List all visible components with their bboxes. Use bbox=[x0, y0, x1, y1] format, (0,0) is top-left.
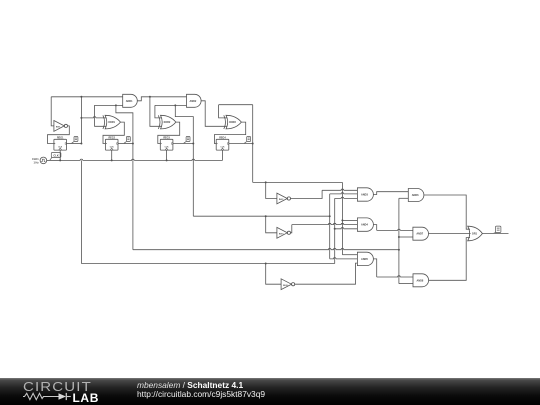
and AND7 bbox=[413, 227, 429, 240]
wire REG2 Q out bbox=[118, 143, 133, 145]
wire AND6 in2 line bbox=[399, 197, 408, 199]
wire Q1 jog to AND1/XOR1 net bbox=[116, 105, 133, 143]
wire Q1 vertical lower bbox=[132, 144, 134, 250]
wire AND3 out to AND6 in1 bbox=[373, 192, 408, 195]
clock flag CLK bbox=[50, 153, 61, 161]
junction carry1 bbox=[149, 96, 151, 98]
wire AND5 in2 line bbox=[330, 258, 358, 259]
inverter INV1 bbox=[54, 121, 68, 132]
wire Q2 horizontal to bus bbox=[193, 215, 329, 217]
wire REG1 Q to Q0 vertical bbox=[67, 143, 82, 145]
wire Q3 line top bbox=[219, 104, 253, 106]
wire REG4 Q out bbox=[229, 143, 253, 145]
wire AND3 in3 line bbox=[335, 197, 358, 198]
junction Q3 invA tap bbox=[265, 181, 267, 183]
wire invA input drop bbox=[266, 182, 277, 198]
wire Q0 horizontal bbox=[81, 263, 334, 265]
wire INV1 output wrap to REG1 D bbox=[48, 126, 70, 144]
junction Q2 bus bbox=[329, 215, 331, 217]
wire Q3 to AND5 in1 bbox=[342, 254, 357, 256]
wire AND5 out to AND8 in1 bbox=[373, 259, 413, 277]
wire AND4 in1 line bbox=[342, 219, 357, 221]
wire bus Q2 vertical bbox=[329, 194, 331, 259]
junction Q1 fanout bbox=[398, 249, 400, 251]
flip-flop REG2 bbox=[105, 136, 118, 150]
and AND2 bbox=[187, 94, 202, 107]
wire XOR1 out wrap to REG2 D bbox=[103, 122, 124, 143]
and AND5 bbox=[357, 252, 373, 265]
wire Q1 horizontal to right gates bbox=[133, 248, 399, 249]
junction Q0 XOR1 tap bbox=[80, 117, 82, 119]
wire carry1 drop to XOR2 in2 bbox=[150, 97, 162, 127]
wire XOR3 bracket top input bbox=[219, 105, 228, 118]
junction REG4 Q bbox=[252, 143, 254, 145]
junction REG1 Q bbox=[80, 143, 82, 145]
junction clock REG2 bbox=[111, 159, 113, 161]
wire AND4 in3 line bbox=[335, 228, 358, 229]
wire invA out riser to AND3 in1 bbox=[291, 190, 323, 198]
wire REG1 clk pin bbox=[59, 150, 61, 160]
junction clock REG3 bbox=[166, 159, 168, 161]
flag Q1 bbox=[124, 137, 130, 144]
flip-flop REG4 bbox=[216, 136, 229, 150]
and AND6 bbox=[408, 189, 424, 202]
inverter INV2 (not Q3) bbox=[277, 193, 291, 204]
junction clock REG1 bbox=[59, 159, 61, 161]
wire clock bus REG1 to REG4 bbox=[60, 159, 222, 160]
footer bar bbox=[0, 378, 540, 405]
junction Q2 invB tap bbox=[265, 215, 267, 217]
wire Q2 line to AND2 in2 bbox=[155, 104, 187, 106]
flag Q0 bbox=[72, 137, 78, 144]
wire clock source to REG1 clk bbox=[47, 159, 61, 161]
junction REG3 Q bbox=[192, 143, 194, 145]
wire Q3 horizontal to bus bbox=[253, 181, 343, 183]
junction Q0 invC tap bbox=[265, 263, 267, 265]
wire invC out to AND5 in3 bbox=[295, 263, 358, 284]
junction Q1 AND7 tap bbox=[398, 236, 400, 238]
junction AND1 in2 tap bbox=[115, 104, 117, 106]
and AND1 bbox=[123, 94, 138, 107]
wire bus Q3 vertical bbox=[341, 182, 343, 254]
wire AND6 out to OR1 in1 bbox=[424, 195, 470, 229]
wire AND2 out to XOR3 in2 bbox=[201, 101, 227, 127]
flag Q3 bbox=[244, 137, 250, 144]
flag OUT bbox=[494, 226, 501, 233]
wire Q0 vertical lower bbox=[80, 160, 82, 263]
xor XOR3 bbox=[224, 115, 242, 129]
and AND3 bbox=[357, 188, 373, 201]
junction Q0 AND4 tap bbox=[334, 228, 336, 230]
flag Q2 bbox=[184, 137, 190, 144]
junction REG2 Q bbox=[132, 143, 134, 145]
or OR1 bbox=[468, 226, 483, 241]
wire XOR1 bracket (Q1 to inputs) bbox=[95, 105, 123, 126]
wire REG2 clk pin bbox=[111, 150, 113, 160]
wire Q2 vertical lower bbox=[192, 144, 194, 217]
wire AND4 in2 line bbox=[292, 223, 358, 224]
wire INV1 input from Q0 top wire bbox=[51, 97, 54, 126]
wire AND7 out to OR1 in2 bbox=[429, 232, 471, 234]
schematic url bbox=[137, 389, 265, 399]
wire Q3 vertical bbox=[252, 105, 254, 183]
wire AND8 in2 line bbox=[399, 283, 413, 285]
wire bus Q0 vertical bbox=[334, 198, 336, 263]
CircuitLab logo text bbox=[23, 380, 92, 394]
wire AND4 out to AND7 in1 bbox=[373, 225, 413, 231]
and AND4 bbox=[357, 218, 373, 231]
flip-flop REG1 bbox=[54, 136, 67, 150]
wire XOR2 bracket top input bbox=[155, 105, 162, 118]
wire Q0 vertical bbox=[81, 97, 106, 144]
wire XOR3 out wrap to REG4 D bbox=[214, 122, 245, 143]
inverter INV4 (not Q0) bbox=[281, 279, 295, 290]
wire XOR2 out wrap to REG3 D bbox=[158, 122, 180, 143]
wire REG3 Q out bbox=[173, 143, 193, 145]
wire invC input drop bbox=[266, 264, 281, 285]
xor XOR2 bbox=[158, 115, 176, 129]
wire REG3 clk pin bbox=[166, 150, 168, 160]
wire Q2 jog down bbox=[175, 105, 193, 143]
wire AND1 out to carry bbox=[137, 97, 186, 101]
inverter INV3 (not Q2) bbox=[277, 227, 291, 238]
wire Q0 top (to AND1 in1) bbox=[51, 96, 123, 98]
wire AND3 in2 line bbox=[330, 193, 358, 194]
and AND8 bbox=[413, 274, 429, 287]
wire AND7 in2 line bbox=[399, 236, 413, 238]
wire AND3 in1 line bbox=[322, 189, 357, 190]
wire REG4 clk pin bbox=[222, 150, 224, 160]
junction Q0 top bbox=[80, 96, 82, 98]
clock source V1 (CLK1 1 Hz) bbox=[32, 157, 47, 164]
junction AND2 in2 tap bbox=[174, 104, 176, 106]
wire invB out riser bbox=[291, 225, 292, 233]
wire Q1 fanout vertical bbox=[398, 198, 400, 283]
junction Q3 AND4 tap bbox=[341, 219, 343, 221]
xor XOR1 bbox=[103, 115, 121, 129]
author / title bbox=[137, 380, 243, 390]
wire invB input drop bbox=[266, 216, 277, 233]
flip-flop REG3 bbox=[160, 136, 173, 150]
wire OR1 output bbox=[482, 232, 508, 234]
wire AND8 out to OR1 in3 bbox=[429, 238, 470, 281]
